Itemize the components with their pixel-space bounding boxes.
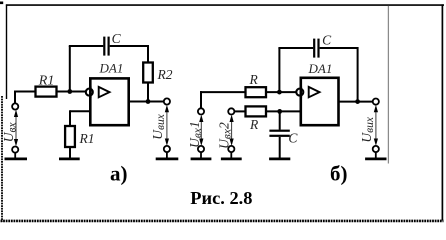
wire: Uvx2 to R (row 2) — [234, 110, 245, 112]
wire: R row2 to non-inverting input — [266, 110, 301, 112]
terminal: Uvx2 — [228, 108, 234, 114]
svg-text:C: C — [288, 131, 298, 146]
arrow Uvih right (double headed) — [374, 105, 378, 146]
node: C tap (row 2) — [277, 109, 282, 114]
node: feedback tap (row 1) — [277, 90, 282, 95]
ground (left output) — [156, 157, 179, 160]
terminal: input top (Uvx) — [12, 103, 18, 109]
svg-text:б): б) — [330, 162, 348, 186]
svg-text:R1: R1 — [38, 74, 55, 89]
ground (capacitor) — [269, 157, 290, 160]
capacitor C (feedback, right circuit) — [313, 39, 320, 58]
node: R2 to output junction — [146, 99, 151, 104]
ground (input) — [5, 157, 28, 160]
svg-text:C: C — [322, 32, 332, 47]
node: feedback to output junction — [355, 99, 360, 104]
op-amp DA1 — [90, 78, 128, 125]
wire: output terminal to ground (right) — [375, 152, 377, 158]
svg-text:R2: R2 — [157, 67, 173, 82]
svg-text:а): а) — [110, 162, 128, 186]
wire: output terminal to ground — [166, 152, 168, 158]
arrow Uvih output (double headed) — [165, 105, 169, 146]
wire: feedback left vertical — [69, 46, 71, 92]
label Uvx1 — [187, 121, 204, 148]
frame top border — [6, 4, 444, 6]
terminal: Uvx1 — [198, 108, 204, 114]
ground (right output) — [365, 157, 386, 160]
wire: feedback top left of C — [278, 47, 313, 49]
wire: R2 down to output node — [147, 83, 149, 102]
terminal: output bottom (right) — [373, 146, 379, 152]
dotted textbox border left segment — [1, 96, 3, 222]
resistor R (row 2) — [246, 106, 267, 116]
gray divider line — [387, 6, 389, 164]
label Uvx2 — [216, 122, 233, 149]
svg-text:DA1: DA1 — [99, 61, 124, 76]
resistor R (row 1) — [246, 87, 267, 97]
terminal: input bottom (Uvx) — [12, 147, 18, 153]
wire: down to R2 — [147, 45, 149, 63]
label Uvih (right output) — [359, 116, 376, 142]
wire: feedback left vertical (right circuit) — [278, 48, 280, 92]
terminal: output (right circuit) — [373, 99, 379, 105]
arrow Uvx1 — [199, 115, 203, 146]
wire: non-inverting input horizontal — [70, 110, 90, 112]
svg-text:Рис. 2.8: Рис. 2.8 — [190, 188, 252, 208]
wire: output horizontal — [129, 101, 164, 103]
svg-text:C: C — [112, 31, 122, 46]
wire: feedback top horizontal left of C — [69, 45, 104, 47]
svg-text:R: R — [249, 117, 259, 132]
ground (Uvx2) — [221, 157, 242, 160]
frame left border — [6, 4, 8, 99]
resistor R2 (vertical) — [143, 63, 153, 83]
inverting input bubble (left op-amp) — [86, 89, 93, 96]
svg-text:R1: R1 — [79, 131, 95, 146]
terminal: output (left circuit) — [164, 98, 170, 104]
wire: C bottom vertical from row 2 node — [279, 111, 281, 129]
dotted textbox border corner mark top-left — [0, 2, 3, 5]
capacitor C (feedback) — [103, 37, 110, 56]
svg-text:R: R — [249, 72, 259, 87]
terminal: Uvx1 bottom — [198, 146, 204, 152]
wire: Uvx1 terminal to ground — [200, 152, 202, 158]
resistor R1 (input, horizontal) — [36, 87, 57, 97]
wire: Uvx1 corner vertical — [200, 91, 202, 108]
terminal: output bottom — [164, 146, 170, 152]
inverting input bubble (right op-amp) — [296, 89, 303, 96]
wire: feedback top horizontal right of C — [110, 45, 148, 47]
wire: terminal to ground — [14, 153, 16, 158]
wire: feedback top right of C — [320, 47, 358, 49]
resistor R1 (vertical, to ground) — [65, 126, 75, 147]
wire: Uvx2 terminal to ground — [230, 152, 232, 158]
ground (Uvx1) — [191, 157, 212, 160]
terminal: Uvx2 bottom — [228, 146, 234, 152]
label Uvih (left output) — [150, 113, 167, 139]
wire: R row1 to inverting input — [266, 91, 297, 93]
wire: R1 to op-amp inverting input — [57, 91, 87, 93]
label Uvx — [1, 121, 18, 142]
wire: non-inverting down to R1 — [69, 110, 71, 126]
wire: Uvx1 to R (row 1) — [200, 91, 246, 93]
dotted textbox border bottom — [1, 220, 444, 223]
op-amp DA1 (right) — [301, 78, 339, 125]
wire: input horizontal to R1 — [14, 91, 36, 93]
svg-text:DA1: DA1 — [308, 61, 333, 76]
arrow Uvx (double headed) — [14, 110, 18, 147]
wire: R1 to ground — [69, 147, 71, 158]
frame right border — [441, 4, 443, 220]
wire: feedback right vertical down to output — [357, 47, 359, 102]
wire: capacitor to ground — [279, 137, 281, 158]
wire: input corner down to terminal — [14, 91, 16, 104]
arrow Uvx2 — [230, 115, 234, 146]
wire: output horizontal (right) — [339, 101, 373, 103]
capacitor C (to ground) — [269, 130, 289, 137]
node: feedback tap on input wire — [67, 89, 72, 94]
ground (below R1) — [59, 157, 80, 160]
